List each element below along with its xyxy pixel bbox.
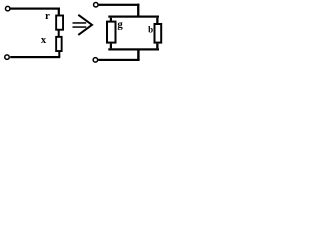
wire stub below box x: [58, 52, 60, 57]
svg-text:r: r: [45, 10, 50, 22]
implication arrow upper shaft: [73, 22, 87, 24]
terminal T1 (left circuit, top): [5, 6, 10, 11]
wire feed rise from bottom wire to bottom bus: [137, 51, 139, 60]
wire bottom-right horizontal: [98, 59, 139, 61]
wire stub bus to box b: [156, 18, 158, 24]
wire stub box b to bottom bus: [156, 44, 158, 49]
implication arrow head: [78, 15, 92, 35]
svg-text:x: x: [41, 35, 47, 46]
wire stub between r and x: [58, 30, 60, 37]
wire bottom bus: [108, 48, 159, 50]
wire top-right horizontal: [99, 4, 140, 6]
svg-text:g: g: [117, 19, 123, 31]
resistor box r: [56, 16, 63, 30]
implication arrow lower shaft: [73, 26, 87, 28]
wire top-left horizontal: [11, 8, 60, 10]
svg-text:b: b: [148, 24, 153, 34]
terminal T4 (right circuit, bottom): [93, 58, 98, 63]
wire stub box g to bottom bus: [110, 44, 112, 49]
wire top bus: [108, 16, 159, 18]
reactance box x: [56, 37, 62, 51]
terminal T3 (right circuit, top): [94, 3, 99, 8]
wire stub bus to box g: [110, 18, 112, 21]
wire feed drop to top bus: [137, 4, 139, 18]
wire bottom-left horizontal: [10, 56, 60, 58]
wire drop into box r: [58, 8, 60, 15]
conductance box g: [107, 22, 116, 43]
terminal T2 (left circuit, bottom): [5, 55, 10, 60]
susceptance box b: [155, 24, 162, 43]
